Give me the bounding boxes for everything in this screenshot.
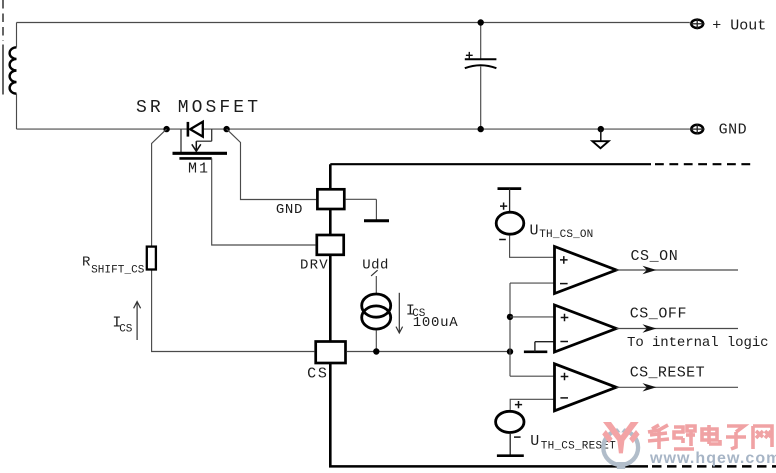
wire V_TH_CS_ON to comp1 plus xyxy=(510,235,555,257)
svg-text:CS: CS xyxy=(307,366,329,383)
svg-text:SHIFT_CS: SHIFT_CS xyxy=(91,264,145,276)
svg-text:Udd: Udd xyxy=(362,258,389,274)
watermark text 华强电子网 xyxy=(648,425,669,449)
wire comp2 output CS_OFF xyxy=(616,328,738,330)
watermark logo red V xyxy=(603,422,639,453)
wire bus to comp2 plus xyxy=(510,316,555,318)
inductor secondary winding xyxy=(10,47,17,93)
node top rail / C1 xyxy=(478,19,484,25)
IC boundary top edge xyxy=(330,163,651,165)
IC boundary left vertical xyxy=(329,164,332,466)
wire CS pad to comparator bus xyxy=(347,351,510,353)
wire inductor top lead xyxy=(16,23,18,48)
svg-text:DRV: DRV xyxy=(300,258,329,274)
wire drain to GND pad xyxy=(227,129,316,199)
node current source / CS net xyxy=(373,348,379,354)
supply bar V_TH_CS_RESET xyxy=(509,434,511,455)
node GND rail / C1 xyxy=(478,126,484,132)
IC boundary bottom edge xyxy=(329,465,648,468)
current arrow I_CS xyxy=(136,303,138,340)
source V_TH_CS_RESET xyxy=(496,411,524,432)
wire input bus vertical xyxy=(509,283,511,376)
wire source to R_SHIFT_CS xyxy=(152,129,315,351)
wire inductor bottom lead xyxy=(16,94,18,129)
wire comp3 output CS_RESET xyxy=(616,386,738,388)
svg-text:M1: M1 xyxy=(188,160,210,177)
wire gate to DRV pad xyxy=(212,158,316,245)
node drain junction xyxy=(223,126,229,132)
wire Vdd to current source xyxy=(375,276,377,294)
current arrow 100uA xyxy=(398,293,400,332)
dashed continuation line xyxy=(2,0,4,41)
svg-text:To internal logic: To internal logic xyxy=(627,335,768,351)
wire V_TH_CS_RESET to comp3 minus xyxy=(510,399,554,410)
node bus / CS net xyxy=(507,348,513,354)
svg-text:U: U xyxy=(530,433,539,450)
supply bar V_TH_CS_ON xyxy=(498,187,522,190)
wire top rail to +Vout xyxy=(17,22,690,24)
svg-text:R: R xyxy=(82,255,91,271)
resistor R_SHIFT_CS xyxy=(147,247,156,270)
svg-text:CS: CS xyxy=(119,324,133,336)
svg-text:www.hqew.com: www.hqew.com xyxy=(649,450,776,467)
pad DRV xyxy=(317,235,344,255)
svg-text:U: U xyxy=(530,223,539,240)
svg-text:CS_OFF: CS_OFF xyxy=(630,305,687,322)
svg-text:TH_CS_ON: TH_CS_ON xyxy=(539,229,593,241)
node bus / comp2 plus xyxy=(507,314,513,320)
body diode D1 xyxy=(187,122,190,137)
pad GND xyxy=(317,189,344,209)
svg-text:+ Uout: + Uout xyxy=(712,17,766,34)
wire current source to CS net xyxy=(375,330,377,351)
capacitor C1 xyxy=(480,23,482,60)
svg-text:GND: GND xyxy=(719,122,748,139)
transistor M1 xyxy=(180,129,182,152)
watermark logo ring xyxy=(603,430,638,465)
node source junction xyxy=(163,126,169,132)
op-amp U2 CS_OFF xyxy=(555,305,617,352)
svg-text:100uA: 100uA xyxy=(413,315,459,331)
wire bus to comp1 minus xyxy=(510,282,555,284)
wire GND pad to ground xyxy=(346,198,377,200)
op-amp U3 CS_RESET xyxy=(555,364,617,411)
ground (chevron) xyxy=(598,126,604,132)
step (0V) symbol comp2 minus xyxy=(524,350,547,353)
svg-text:GND: GND xyxy=(276,202,303,218)
terminal GND xyxy=(691,125,703,134)
svg-text:SR MOSFET: SR MOSFET xyxy=(136,98,261,118)
current source I1 xyxy=(362,294,391,317)
wire bus to comp3 plus xyxy=(510,375,555,377)
op-amp U1 CS_ON xyxy=(555,247,617,294)
terminal + Vout xyxy=(691,20,703,28)
source V_TH_CS_ON xyxy=(496,212,524,234)
wire bottom GND rail xyxy=(17,128,690,130)
svg-text:CS_ON: CS_ON xyxy=(631,248,679,265)
pad CS xyxy=(316,342,346,364)
transformer core line xyxy=(2,45,4,95)
ground (bar) xyxy=(364,219,389,222)
svg-text:CS_RESET: CS_RESET xyxy=(630,364,705,381)
wire comp1 output CS_ON xyxy=(616,269,738,271)
